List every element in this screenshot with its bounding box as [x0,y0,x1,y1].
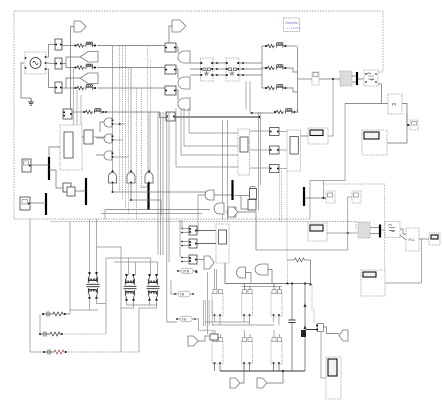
svg-text:TB: TB [182,318,187,322]
svg-text:Discrete,: Discrete, [286,21,299,25]
svg-text:STB: STB [183,270,190,274]
svg-text:s = 5e-05 s: s = 5e-05 s [287,26,302,30]
svg-text:TB: TB [180,293,185,297]
svg-text:PLL: PLL [409,238,416,242]
svg-text:PI: PI [392,102,396,107]
